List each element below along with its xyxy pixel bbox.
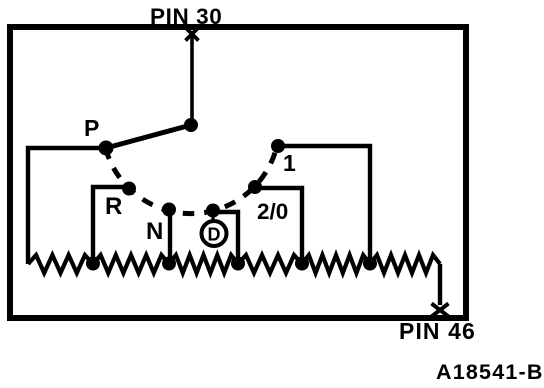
svg-text:P: P xyxy=(84,115,99,141)
svg-text:2/0: 2/0 xyxy=(257,199,288,224)
svg-text:R: R xyxy=(105,193,122,220)
svg-text:N: N xyxy=(146,218,163,245)
svg-text:PIN 46: PIN 46 xyxy=(399,318,476,344)
svg-text:1: 1 xyxy=(283,150,296,176)
svg-text:PIN 30: PIN 30 xyxy=(150,4,222,29)
svg-text:D: D xyxy=(208,225,221,245)
svg-text:A18541-B: A18541-B xyxy=(436,360,544,384)
